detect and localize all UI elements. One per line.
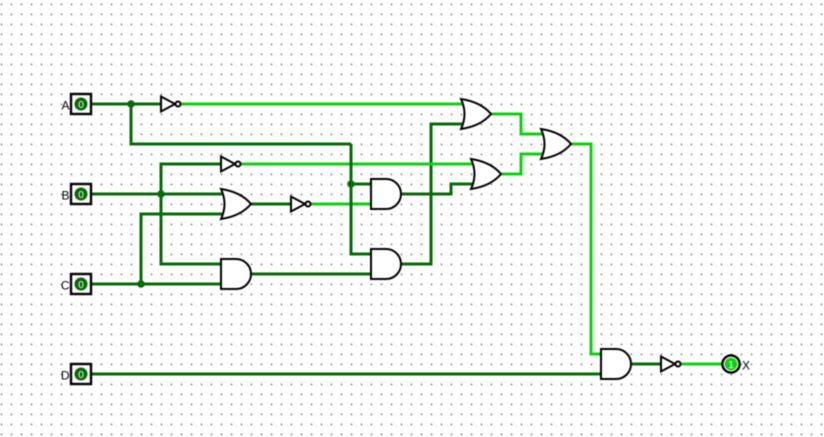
wire OR gate G5 output to NOT gate G3 input (250, 203, 293, 206)
wire junction to AND gate G7 upper input (351, 183, 372, 186)
wire net B: pin B to OR gate G5 upper input (91, 193, 226, 196)
svg-text:1: 1 (728, 360, 734, 371)
NOT gate G1 (161, 97, 181, 112)
wire OR gate G10 output to OR gate G12 lower input (high) (500, 154, 546, 174)
wire NOT gate G1 output to OR gate G9 upper input (high) (181, 103, 466, 106)
wire net C branch up: junction to OR gate G5 lower input (141, 214, 226, 284)
NOT gate G2 (221, 157, 241, 172)
svg-text:0: 0 (78, 100, 84, 111)
wire OR gate G9 output to OR gate G12 upper input (high) (490, 114, 546, 134)
svg-text:0: 0 (78, 280, 84, 291)
wire net C: pin C to AND gate G6 lower input (91, 283, 222, 286)
svg-text:0: 0 (78, 370, 84, 381)
wire net A branch: junction down and right to vertical bus (131, 104, 351, 144)
junction on net A (127, 100, 135, 108)
svg-text:B: B (61, 189, 69, 203)
NOT gate G4 (661, 357, 681, 372)
OR gate G9 (461, 99, 491, 129)
wire AND gate G7 output to OR gate G10 lower input (400, 184, 476, 194)
input pin C (71, 274, 91, 294)
wire net D: pin D to AND gate G11 lower input (91, 373, 602, 376)
AND gate G6 (221, 259, 251, 289)
wire AND gate G11 output to NOT gate G4 input (630, 363, 663, 366)
wire net B branch down: junction to AND gate G6 upper input (161, 194, 222, 264)
junction on net C (137, 280, 145, 288)
wire NOT gate G3 output to AND gate G7 lower input (high) (311, 203, 372, 206)
svg-text:X: X (742, 359, 750, 373)
wire net B branch up: junction to NOT gate G2 input (161, 164, 223, 194)
AND gate G11 (601, 349, 631, 379)
svg-text:A: A (61, 99, 69, 113)
wire AND gate G8 output up to OR gate G9 lower input (400, 124, 466, 264)
output pin X (value 1) (722, 355, 739, 372)
wire OR gate G12 output down to AND gate G11 upper input (high) (570, 144, 602, 354)
svg-text:0: 0 (78, 190, 84, 201)
AND gate G7 (371, 179, 401, 209)
wire vertical bus net A-branch to AND gates G7 G8 upper inputs (351, 144, 372, 254)
junction on net B (157, 190, 165, 198)
OR gate G12 (541, 129, 571, 159)
junction on net A-branch bus (347, 180, 355, 188)
svg-text:C: C (61, 279, 70, 293)
OR gate G5 (221, 189, 251, 219)
input pin B (71, 184, 91, 204)
svg-text:D: D (61, 369, 70, 383)
OR gate G10 (471, 159, 501, 189)
input pin A (71, 94, 91, 114)
NOT gate G3 (291, 197, 311, 212)
wire NOT gate G4 output to output pin X (high) (681, 363, 723, 366)
wire AND gate G6 output to AND gate G8 lower input (250, 273, 372, 276)
input pin D (71, 364, 91, 384)
wire NOT gate G2 output to OR gate G10 upper input (high) (241, 163, 476, 166)
AND gate G8 (371, 249, 401, 279)
wire net A: pin A to NOT gate G1 input (91, 103, 162, 106)
